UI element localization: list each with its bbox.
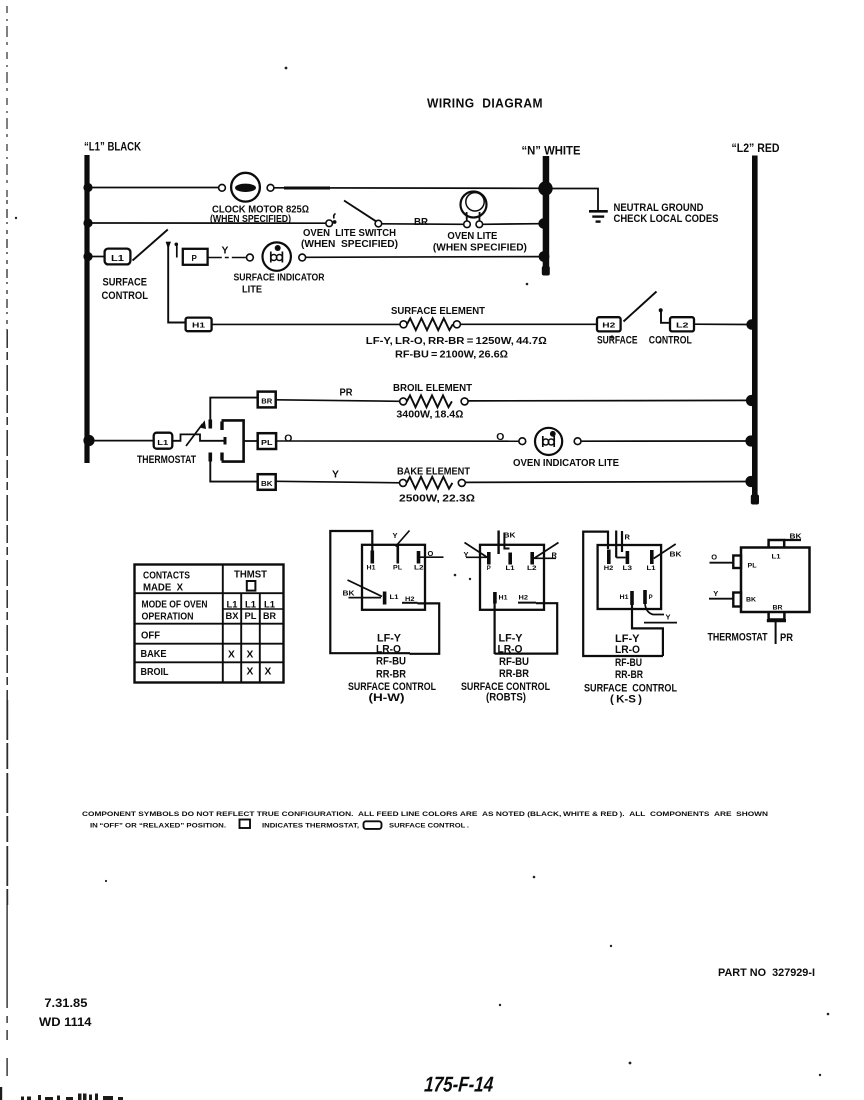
- svg-text:BROIL: BROIL: [141, 667, 169, 678]
- svg-text:H1: H1: [367, 566, 377, 572]
- node L2-indicator junction: [745, 435, 756, 446]
- label surface indicator lite: [234, 273, 325, 296]
- surface control (K-S) element loop wire: [583, 532, 663, 656]
- svg-text:7.31.85: 7.31.85: [44, 996, 87, 1010]
- wire row2 switch to oven lite: [382, 223, 464, 226]
- K-S R leads to L3: [616, 531, 630, 558]
- label neutral ground: [614, 202, 719, 225]
- oven lite lamp: [461, 192, 487, 228]
- svg-text:P: P: [649, 595, 653, 601]
- svg-text:H2: H2: [604, 566, 614, 572]
- ROBTS terminal L1: [506, 553, 516, 573]
- svg-text:WD 1114: WD 1114: [39, 1015, 92, 1029]
- ROBTS BK leads: [499, 531, 517, 555]
- oven lite switch S1: [326, 201, 382, 227]
- surface indicator lite lamp: [247, 242, 306, 270]
- svg-text:L1: L1: [111, 254, 125, 263]
- H-W labels: [348, 633, 436, 705]
- K-S terminal L3: [623, 551, 633, 572]
- wire row2 oven lite to N: [483, 223, 540, 226]
- svg-text:SURFACE INDICATOR: SURFACE INDICATOR: [234, 273, 325, 284]
- svg-text:LITE: LITE: [242, 285, 262, 296]
- svg-text:L2: L2: [527, 566, 537, 572]
- ROBTS terminal L2 with R blade: [527, 543, 559, 573]
- terminal box BR: [258, 392, 276, 408]
- svg-text:OVEN INDICATOR LITE: OVEN INDICATOR LITE: [513, 458, 619, 469]
- table row BAKE: [141, 649, 254, 661]
- H-W BK arrow to L1: [343, 580, 400, 605]
- svg-text:LR-O: LR-O: [376, 644, 401, 656]
- terminal box PL: [258, 433, 276, 449]
- wire P to indicator: [208, 257, 246, 259]
- node L2-bake junction: [745, 476, 756, 487]
- oven indicator lite lamp: [519, 428, 581, 455]
- svg-text:Y: Y: [393, 531, 398, 540]
- terminal box L1 (thermostat): [154, 433, 173, 449]
- surface control (H-W) element loop wire: [330, 531, 410, 653]
- ROBTS terminal H1 and lead: [495, 592, 509, 654]
- table header THMST: [234, 570, 268, 591]
- thermostat wiper arrow: [186, 420, 206, 446]
- svg-text:RR-BR: RR-BR: [376, 669, 406, 681]
- switch blade from L1 box: [133, 230, 168, 261]
- svg-text:BK: BK: [504, 531, 517, 540]
- svg-text:(H-W): (H-W): [369, 692, 405, 704]
- svg-text:O: O: [284, 433, 292, 444]
- svg-text:L1: L1: [157, 440, 168, 447]
- wire row2 L1 to oven lite switch: [89, 222, 326, 224]
- node L1-row2 junction: [83, 218, 92, 227]
- K-S terminal H1 and lead: [620, 591, 663, 656]
- svg-text:RF-BU: RF-BU: [376, 656, 406, 668]
- svg-text:BK: BK: [790, 532, 803, 541]
- node N-row3 junction: [539, 251, 550, 262]
- svg-text:THMST: THMST: [234, 570, 268, 581]
- node N-row2 junction: [538, 218, 548, 228]
- table header mode of oven operation: [142, 600, 208, 623]
- svg-text:THERMOSTAT: THERMOSTAT: [137, 454, 196, 466]
- svg-text:CONTROL: CONTROL: [102, 290, 149, 302]
- thermostat detail PL tab with O lead: [710, 553, 757, 570]
- svg-text:RR-BR: RR-BR: [615, 669, 643, 681]
- svg-text:H1: H1: [620, 595, 630, 601]
- svg-text:Y: Y: [332, 470, 339, 481]
- svg-text:OVEN LITE SWITCH: OVEN LITE SWITCH: [303, 228, 396, 239]
- svg-text:RF-BU = 2100W, 26.6Ω: RF-BU = 2100W, 26.6Ω: [395, 350, 508, 361]
- wire curl at P box: [175, 243, 179, 258]
- bus L2 (red feed): [732, 141, 780, 505]
- svg-text:RR-BR: RR-BR: [499, 668, 529, 680]
- svg-text:L1: L1: [264, 599, 275, 610]
- wire PL to oven indicator: [276, 440, 518, 442]
- wire L2 box to L2 bus: [694, 323, 750, 325]
- svg-text:P: P: [487, 566, 491, 572]
- svg-text:L1: L1: [506, 566, 516, 572]
- surface control (ROBTS) body: [480, 545, 544, 610]
- switch blade H2 to L2: [624, 292, 657, 322]
- svg-text:BR: BR: [414, 217, 428, 228]
- svg-text:BAKE: BAKE: [141, 649, 167, 660]
- node L2-broil junction: [746, 395, 757, 406]
- terminal box BK: [258, 474, 276, 490]
- svg-text:L1: L1: [227, 599, 238, 610]
- svg-text:LR-O: LR-O: [498, 644, 523, 656]
- wire bracket to PL box: [244, 440, 258, 442]
- svg-text:IN “OFF” OR “RELAXED” POSITION: IN “OFF” OR “RELAXED” POSITION.: [90, 823, 226, 830]
- contacts table: [135, 565, 284, 683]
- svg-text:BK: BK: [670, 550, 683, 559]
- svg-text:Y: Y: [222, 246, 229, 257]
- svg-text:PL: PL: [748, 564, 757, 570]
- thermostat detail bottom tab with PR lead: [767, 612, 786, 644]
- bus L1 (black feed): [84, 140, 141, 464]
- svg-text:PART NO 327929-I: PART NO 327929-I: [718, 967, 815, 979]
- svg-text:P: P: [192, 254, 198, 263]
- svg-text:LF-Y, LR-O, RR-BR = 1250W, 44.: LF-Y, LR-O, RR-BR = 1250W, 44.7Ω: [366, 336, 547, 347]
- svg-text:H1: H1: [192, 321, 205, 330]
- svg-text:BK: BK: [746, 598, 757, 604]
- label oven lite: [433, 231, 527, 254]
- node L1-row3 junction: [83, 252, 92, 261]
- wire BR to broil element: [276, 400, 400, 402]
- wire surface element to H2: [460, 323, 597, 325]
- svg-text:L3: L3: [623, 566, 633, 572]
- svg-text:BAKE ELEMENT: BAKE ELEMENT: [397, 466, 471, 477]
- svg-text:BR: BR: [773, 606, 784, 612]
- thermostat detail top tab with BK lead: [769, 532, 803, 548]
- svg-text:LR-O: LR-O: [615, 644, 640, 656]
- svg-text:SURFACE: SURFACE: [103, 277, 148, 289]
- svg-text:BR: BR: [261, 398, 272, 405]
- svg-text:MODE OF OVEN: MODE OF OVEN: [142, 600, 208, 611]
- wire BK to bake element: [276, 481, 400, 483]
- svg-text:X: X: [247, 650, 254, 661]
- note component symbols text: [82, 811, 768, 830]
- H-W terminal H2 and loop: [402, 597, 439, 654]
- svg-text:BROIL ELEMENT: BROIL ELEMENT: [393, 383, 473, 394]
- K-S labels: [584, 633, 677, 706]
- wire vertical to H1 row with arrow: [166, 242, 185, 323]
- svg-text:PL: PL: [261, 440, 273, 447]
- table header contacts made x: [143, 571, 190, 594]
- thermostat detail body: [741, 548, 810, 613]
- terminal box L2: [670, 317, 694, 331]
- svg-text:SURFACE CONTROL .: SURFACE CONTROL .: [389, 823, 469, 830]
- svg-text:COMPONENT SYMBOLS DO NOT REFLE: COMPONENT SYMBOLS DO NOT REFLECT TRUE CO…: [82, 811, 768, 818]
- svg-text:OFF: OFF: [141, 631, 160, 642]
- scan smudge bottom-left: [0, 1087, 123, 1100]
- svg-text:175-F-14: 175-F-14: [423, 1073, 494, 1097]
- svg-text:CONTROL: CONTROL: [649, 335, 692, 347]
- svg-text:O: O: [496, 432, 504, 443]
- svg-text:RF-BU: RF-BU: [615, 657, 642, 669]
- svg-text:THERMOSTAT: THERMOSTAT: [708, 632, 768, 644]
- svg-text:“L1” BLACK: “L1” BLACK: [84, 140, 141, 154]
- node L2-surface junction: [746, 319, 756, 329]
- wire L1 to thermostat: [89, 440, 154, 442]
- thermostat adjustable contact jog: [173, 434, 224, 440]
- svg-text:Y: Y: [666, 613, 671, 622]
- svg-text:SURFACE: SURFACE: [597, 335, 638, 347]
- svg-text:RF-BU: RF-BU: [499, 656, 529, 668]
- svg-text:BK: BK: [261, 481, 273, 488]
- H-W terminal H1: [367, 544, 377, 572]
- resistor surface element: [400, 318, 460, 330]
- svg-text:H2: H2: [602, 321, 615, 330]
- H-W terminal PL with Y blade: [393, 531, 410, 572]
- svg-text:PL: PL: [393, 566, 402, 572]
- thermostat detail labels: [708, 632, 794, 645]
- svg-text:INDICATES THERMOSTAT,: INDICATES THERMOSTAT,: [262, 823, 359, 830]
- svg-text:(ROBTS): (ROBTS): [486, 692, 526, 704]
- svg-text:H2: H2: [519, 596, 529, 602]
- svg-text:CONTACTS: CONTACTS: [143, 571, 190, 582]
- surface control (K-S) body: [598, 545, 662, 609]
- node L1-row1 junction: [83, 183, 92, 192]
- label clock motor: [210, 205, 309, 226]
- thermostat lower contact: [209, 453, 213, 462]
- svg-text:X: X: [265, 667, 272, 678]
- terminal box H1: [186, 318, 212, 332]
- K-S terminal L1 with BK blade: [647, 544, 683, 572]
- svg-text:O: O: [711, 553, 717, 562]
- svg-text:MADE X: MADE X: [143, 583, 183, 594]
- wire row1 clock motor to N: [274, 187, 540, 190]
- svg-text:SURFACE ELEMENT: SURFACE ELEMENT: [391, 306, 486, 317]
- svg-text:L1: L1: [647, 566, 657, 572]
- resistor bake element: [400, 477, 466, 489]
- svg-text:OVEN LITE: OVEN LITE: [447, 231, 497, 242]
- svg-text:2500W, 22.3Ω: 2500W, 22.3Ω: [399, 494, 475, 505]
- svg-text:R: R: [625, 533, 631, 542]
- label surface control (right): [597, 335, 692, 347]
- wire row1 L1 to clock motor: [89, 187, 219, 189]
- node N-row1 junction: [538, 181, 552, 195]
- wire broil element to L2: [468, 399, 750, 402]
- svg-text:BR: BR: [263, 610, 276, 621]
- svg-text:L2: L2: [414, 566, 424, 572]
- K-S terminal H2: [604, 550, 614, 573]
- svg-text:(WHEN SPECIFIED): (WHEN SPECIFIED): [433, 243, 527, 254]
- wire broil corner from thermostat: [210, 398, 257, 421]
- table column headers L1/BX L1/PL L1/BR: [226, 599, 277, 622]
- terminal box H2: [597, 317, 621, 331]
- svg-text:H1: H1: [499, 596, 509, 602]
- svg-text:X: X: [228, 650, 235, 661]
- wire hook into L2 box: [659, 308, 670, 323]
- svg-text:“N” WHITE: “N” WHITE: [522, 144, 581, 158]
- svg-text:PR: PR: [340, 388, 353, 399]
- terminal box P: [183, 249, 208, 265]
- svg-text:L1: L1: [390, 595, 400, 601]
- svg-text:PL: PL: [245, 610, 257, 621]
- ROBTS terminal P with Y blade: [464, 543, 491, 573]
- svg-text:L1: L1: [245, 599, 256, 610]
- wire row3 L1 to surface control L1: [89, 256, 104, 258]
- svg-text:O: O: [428, 549, 434, 558]
- H-W terminal L2 with O lead: [414, 549, 444, 572]
- scan edge artifact left border: [6, 6, 8, 1076]
- label surface control (left): [102, 277, 149, 303]
- svg-text:CHECK LOCAL CODES: CHECK LOCAL CODES: [614, 213, 719, 225]
- surface control (H-W) body: [362, 545, 425, 610]
- label surface element ratings: [366, 336, 547, 361]
- svg-text:L1: L1: [772, 555, 782, 561]
- bus N (white neutral): [522, 144, 581, 276]
- svg-text:“L2” RED: “L2” RED: [732, 141, 780, 155]
- svg-text:BX: BX: [226, 610, 240, 621]
- thermostat contact carrier bracket: [222, 420, 244, 461]
- node L1-thermostat junction: [83, 435, 94, 446]
- label oven lite switch: [301, 228, 398, 250]
- K-S terminal P with Y lead: [644, 590, 677, 623]
- wire H1 to surface element: [212, 323, 400, 325]
- svg-text:3400W, 18.4Ω: 3400W, 18.4Ω: [396, 410, 463, 421]
- svg-text:WIRING DIAGRAM: WIRING DIAGRAM: [427, 96, 543, 111]
- svg-text:PR: PR: [780, 632, 793, 644]
- svg-text:( K-S ): ( K-S ): [610, 694, 642, 706]
- ROBTS terminal H2 and loop: [495, 596, 558, 654]
- ROBTS labels: [461, 633, 550, 704]
- surface control terminal box L1: [105, 249, 131, 265]
- svg-text:(WHEN SPECIFIED): (WHEN SPECIFIED): [301, 239, 398, 250]
- wire row1 thick scan segment: [284, 187, 330, 190]
- thermostat detail BK tab with Y lead: [709, 589, 757, 607]
- wire bake corner from thermostat: [210, 461, 257, 482]
- ground symbol: [589, 211, 608, 221]
- resistor broil element: [400, 395, 468, 407]
- wire indicator to L2: [581, 440, 750, 442]
- wire row3 indicator to N: [306, 256, 540, 259]
- svg-text:BK: BK: [343, 589, 356, 598]
- clock motor M1 (825 ohm): [219, 173, 274, 202]
- table row BROIL: [141, 667, 272, 679]
- svg-text:OPERATION: OPERATION: [142, 612, 194, 623]
- wire bake element to L2: [465, 481, 750, 484]
- svg-text:L2: L2: [676, 321, 689, 330]
- wire N to neutral ground: [549, 189, 598, 211]
- svg-text:Y: Y: [713, 589, 718, 598]
- svg-text:X: X: [247, 667, 254, 678]
- thermostat upper contact: [209, 420, 213, 429]
